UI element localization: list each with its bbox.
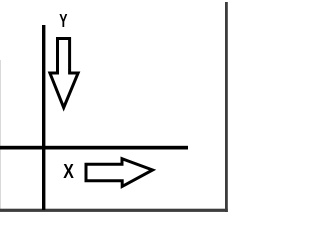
bottom border [0,209,228,212]
svg-text:Y: Y [59,11,67,31]
right arrow on X axis [86,159,153,187]
svg-text:X: X [63,161,74,183]
down arrow on Y axis [50,39,78,108]
X axis line [0,146,188,150]
Y axis line [42,25,45,210]
right border [225,2,228,212]
left edge line [0,60,1,210]
